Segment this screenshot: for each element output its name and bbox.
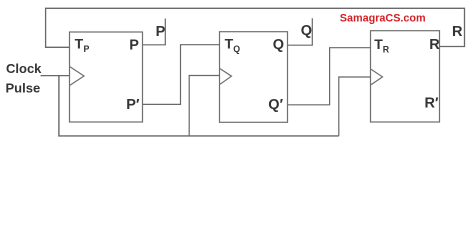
svg-text:R′: R′ xyxy=(425,95,439,111)
wire: Q' output to T_R input xyxy=(288,48,371,105)
wire: clock riser to U2 xyxy=(189,76,219,136)
clock edge-trigger symbol U1 xyxy=(70,67,84,85)
wire: clock riser to U3 xyxy=(339,77,371,136)
svg-text:R: R xyxy=(383,44,390,54)
svg-text:Q′: Q′ xyxy=(268,97,283,113)
wire: P' output to T_Q input xyxy=(143,45,220,105)
flip-flop U3 (T_R) box xyxy=(371,31,440,122)
svg-text:Pulse: Pulse xyxy=(6,80,41,95)
svg-text:Q: Q xyxy=(233,44,240,54)
wire: Q output stub xyxy=(288,18,313,45)
svg-text:P′: P′ xyxy=(126,97,140,113)
svg-text:SamagraCS.com: SamagraCS.com xyxy=(340,12,426,24)
svg-text:P: P xyxy=(84,44,90,54)
wire: P output stub xyxy=(143,19,166,45)
flip-flop U2 (T_Q) box xyxy=(220,32,288,123)
wire: clock input to U1 xyxy=(41,75,70,77)
svg-text:R: R xyxy=(452,24,463,40)
clock edge-trigger symbol U2 xyxy=(220,69,232,85)
svg-text:P: P xyxy=(156,24,166,40)
svg-text:Q: Q xyxy=(301,23,312,39)
svg-text:T: T xyxy=(225,36,234,52)
svg-text:Clock: Clock xyxy=(6,61,42,76)
svg-text:P: P xyxy=(129,37,139,53)
svg-text:Q: Q xyxy=(273,37,284,53)
svg-text:R: R xyxy=(429,37,440,53)
wire: clock distribution bottom bus xyxy=(59,76,339,136)
wire: feedback R output to T_P input (right, up, across top, down, into T_P) xyxy=(46,8,465,47)
svg-text:T: T xyxy=(75,36,84,52)
flip-flop U1 (T_P) box xyxy=(70,32,143,122)
clock edge-trigger symbol U3 xyxy=(371,69,383,85)
